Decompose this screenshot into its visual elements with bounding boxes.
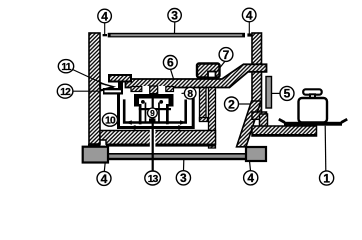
flexure wedge (11) — [101, 83, 114, 90]
svg-text:5: 5 — [284, 87, 291, 101]
leader 12 — [73, 90, 99, 92]
leader 3 top — [174, 22, 176, 34]
svg-text:13: 13 — [148, 174, 159, 185]
crossbar — [139, 108, 171, 110]
rod clamp — [149, 119, 156, 124]
frame side column right — [169, 94, 174, 107]
label 4 top-left — [98, 9, 112, 23]
label 4 bottom-left — [97, 171, 111, 185]
label 3 top — [168, 9, 181, 22]
label 7 — [219, 48, 233, 62]
pivot stem left — [145, 103, 147, 123]
window flange bottom — [252, 112, 267, 119]
leader 4 bottom-right — [250, 161, 251, 171]
svg-text:4: 4 — [246, 8, 253, 22]
weighing pan (1) — [284, 122, 342, 126]
label 3 bottom — [176, 171, 190, 185]
flexure line — [99, 85, 110, 87]
svg-text:2: 2 — [228, 97, 235, 111]
ledge riser — [260, 114, 268, 130]
leader 5 — [272, 92, 280, 94]
mounting step — [109, 75, 131, 82]
right wall — [252, 33, 262, 113]
svg-text:11: 11 — [61, 62, 71, 73]
inner right baffle — [200, 88, 207, 121]
leader 7 — [216, 61, 225, 72]
bracket bar (12) — [103, 88, 123, 95]
center boss — [150, 86, 158, 94]
inner plate left — [139, 104, 142, 124]
top cover plate (3) — [108, 33, 245, 38]
label 1 — [320, 171, 334, 185]
hanger pad left — [131, 87, 142, 92]
svg-text:3: 3 — [171, 9, 178, 23]
svg-text:4: 4 — [101, 9, 108, 23]
bracket post — [118, 82, 123, 95]
label 4 bottom-right — [244, 171, 258, 185]
label 9 — [148, 108, 158, 118]
label 12 — [57, 84, 73, 98]
corner seal left (4) — [103, 34, 107, 36]
inner plate right — [166, 104, 169, 124]
pivot stem right — [158, 103, 160, 123]
frame top bar — [134, 94, 174, 99]
leader 4 top-left — [104, 23, 106, 34]
frame side column left — [134, 94, 139, 107]
svg-text:12: 12 — [60, 87, 71, 98]
leader 8 — [182, 92, 185, 94]
rod — [152, 99, 154, 172]
leader 1 — [324, 126, 327, 171]
leader 4 bottom-left — [103, 163, 106, 172]
pan ledge — [252, 126, 317, 136]
notch in block 7 — [208, 72, 216, 78]
sloped lower wall (2) — [237, 101, 262, 147]
svg-text:9: 9 — [150, 108, 155, 118]
leader 2 — [239, 103, 251, 105]
floor — [100, 131, 216, 145]
right foot (4) — [246, 147, 266, 161]
leader 4 top-right — [248, 22, 250, 34]
label 10 — [102, 113, 117, 126]
label 13 — [145, 171, 161, 185]
U2 channel — [124, 99, 186, 122]
pivot dot right — [159, 100, 163, 104]
label 11 — [58, 60, 73, 73]
arrow U1 left — [130, 125, 136, 130]
svg-text:3: 3 — [180, 171, 187, 185]
U1 channel — [119, 94, 194, 128]
window glass (5) — [266, 77, 272, 109]
svg-text:7: 7 — [223, 48, 230, 62]
pivot dot left — [141, 100, 145, 104]
left wall — [89, 33, 100, 144]
svg-text:8: 8 — [187, 89, 193, 100]
left wall bottom edge — [88, 144, 101, 147]
leader 11 — [73, 70, 106, 86]
shelf notch left — [142, 86, 150, 93]
leader 6 — [171, 69, 174, 79]
sensor block (7) — [197, 64, 220, 78]
calibration weight — [303, 89, 322, 94]
left foot (4) — [83, 147, 108, 163]
svg-text:4: 4 — [247, 171, 254, 185]
shelf notch right — [158, 86, 166, 93]
svg-text:6: 6 — [167, 56, 174, 70]
label 8 — [184, 87, 196, 99]
label 2 — [225, 97, 239, 111]
corner seal right (4) — [247, 33, 252, 36]
label 6 — [163, 56, 177, 70]
inner right wall — [209, 88, 216, 149]
bottom plate (3) — [96, 153, 252, 160]
rod slot — [150, 129, 156, 147]
arrow U2 left — [126, 120, 132, 124]
leader 3 bottom — [183, 160, 185, 171]
svg-text:10: 10 — [105, 115, 116, 126]
svg-text:1: 1 — [323, 171, 330, 185]
svg-text:4: 4 — [101, 172, 108, 186]
label 4 top-right — [242, 8, 256, 22]
hanger pad right — [166, 87, 174, 92]
arrow U1 right — [178, 125, 184, 130]
label 5 — [280, 86, 294, 100]
arrow U2 right — [180, 120, 186, 124]
partition shelf (6) — [126, 64, 267, 87]
floor bottom edge — [106, 144, 216, 146]
